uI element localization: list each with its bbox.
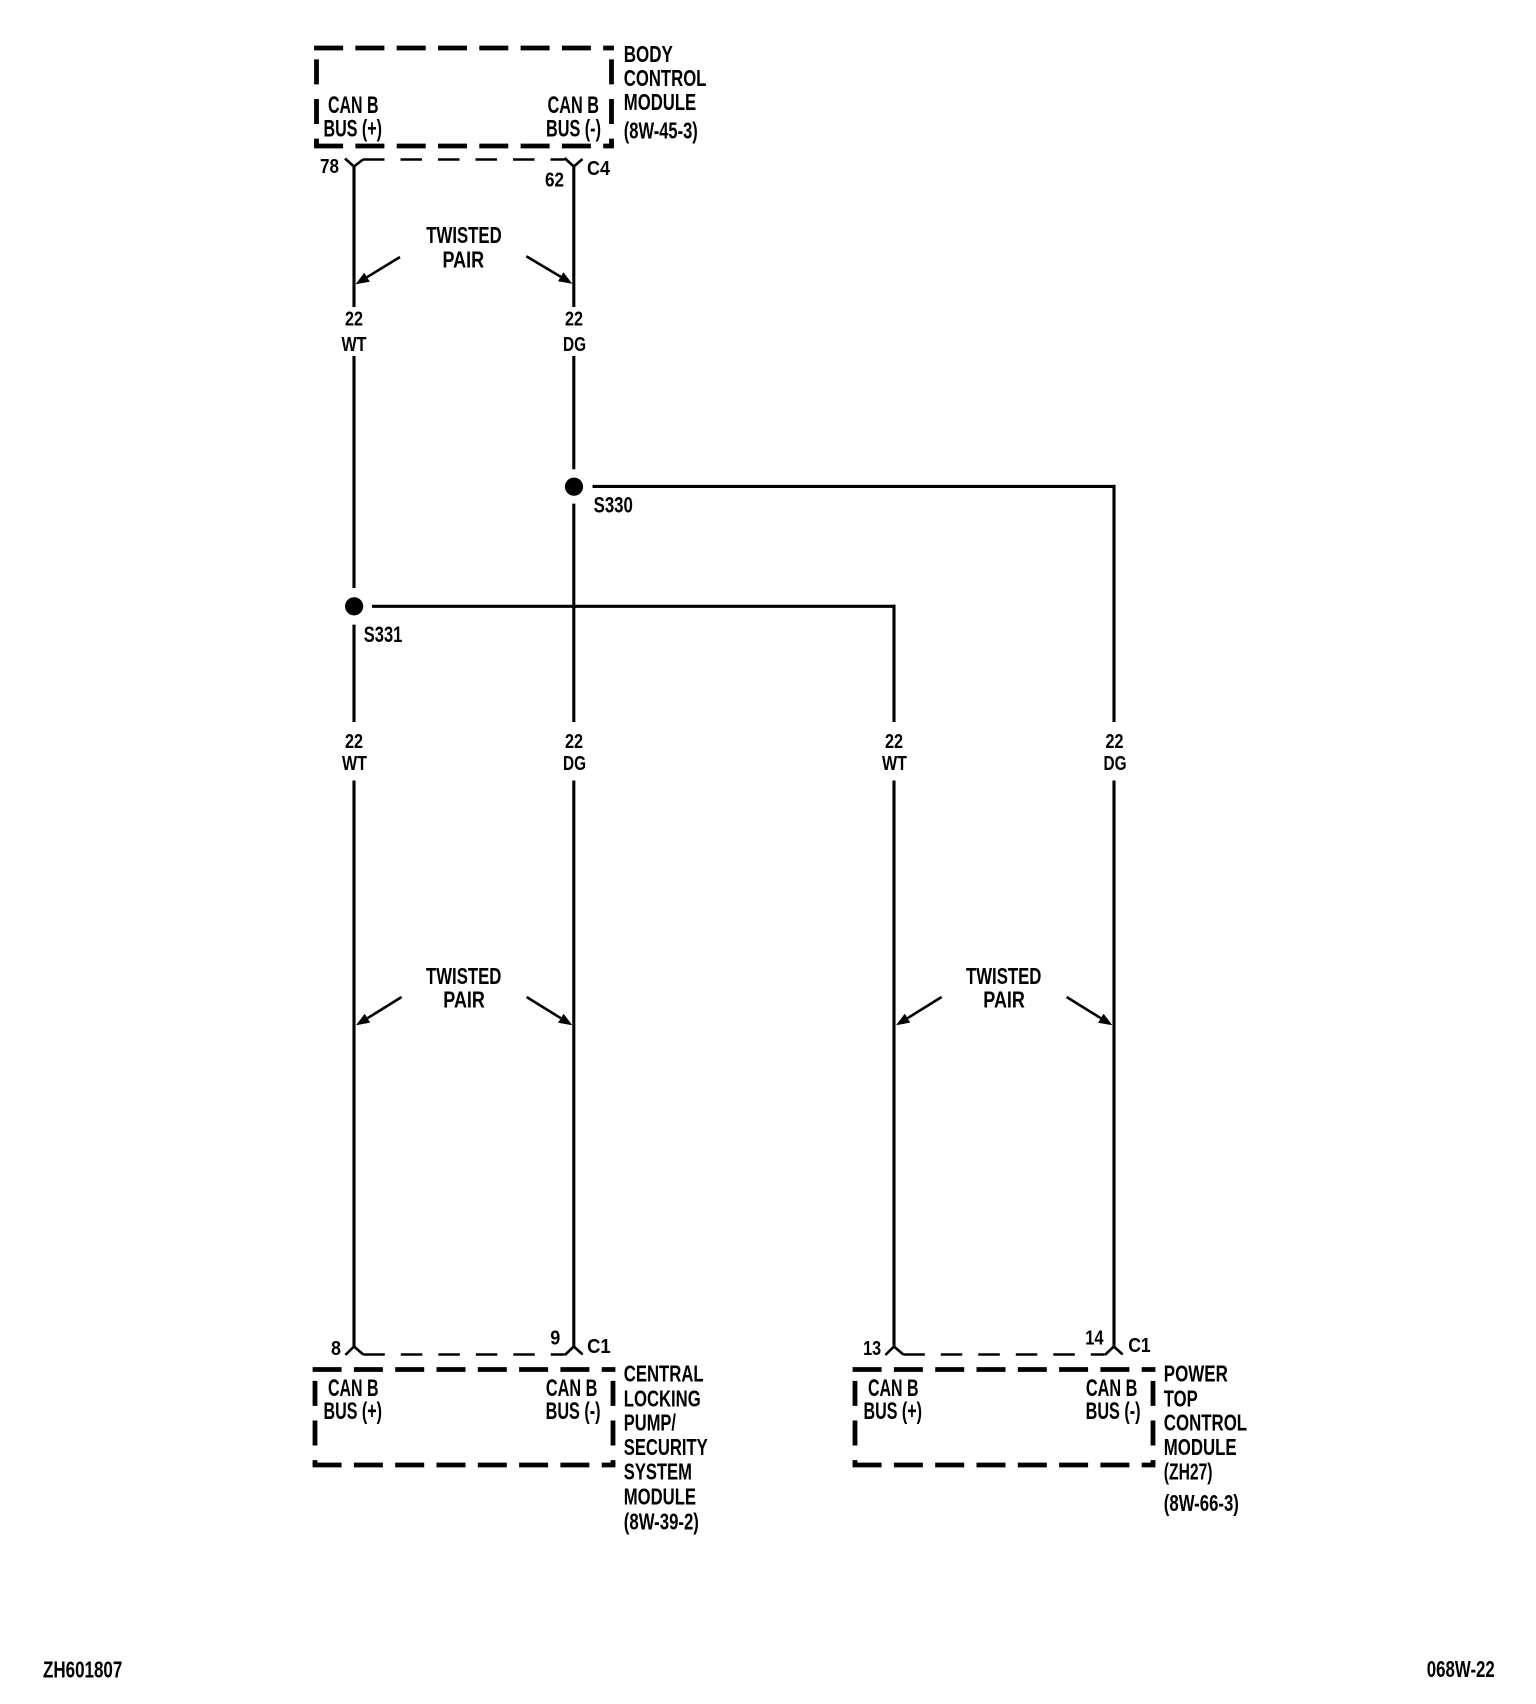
- svg-text:WT: WT: [882, 752, 907, 775]
- svg-text:C4: C4: [587, 157, 611, 180]
- connector C1 dashed link (right): [903, 1353, 1104, 1356]
- svg-text:TWISTED: TWISTED: [426, 963, 501, 989]
- module box: CENTRAL LOCKING PUMP/SECURITY SYSTEM MODULE: [313, 1370, 616, 1466]
- svg-text:SECURITY: SECURITY: [624, 1434, 708, 1460]
- svg-text:WT: WT: [342, 333, 367, 356]
- svg-text:BODY: BODY: [624, 41, 673, 67]
- svg-text:PAIR: PAIR: [443, 986, 485, 1012]
- svg-text:8: 8: [331, 1337, 341, 1360]
- svg-text:CONTROL: CONTROL: [624, 65, 707, 91]
- svg-text:BUS (+): BUS (+): [864, 1398, 923, 1425]
- svg-text:CENTRAL: CENTRAL: [624, 1361, 704, 1387]
- wire gauge/color 22 WT (lower left pair): [342, 730, 367, 775]
- module name BODY CONTROL MODULE (8W-45-3): [624, 41, 707, 144]
- svg-text:S330: S330: [594, 493, 633, 518]
- svg-text:(8W-39-2): (8W-39-2): [624, 1509, 699, 1535]
- wire DG branch lower segment to pin 14: [1112, 781, 1115, 1347]
- label TWISTED PAIR (lower left): [426, 963, 501, 1012]
- svg-text:(8W-66-3): (8W-66-3): [1164, 1490, 1239, 1516]
- label CAN B BUS (+) [BCM pin 78]: [324, 92, 383, 143]
- wire gauge/color 22 DG (upper): [563, 307, 586, 356]
- svg-text:DG: DG: [1104, 752, 1127, 775]
- twisted-pair arrow to WT wire (top): [356, 257, 401, 284]
- svg-text:BUS (+): BUS (+): [324, 116, 383, 143]
- wire gauge/color 22 WT (upper): [342, 307, 367, 356]
- label CAN B BUS (-) [BCM pin 62]: [546, 92, 601, 143]
- module box: POWER TOP CONTROL MODULE: [853, 1370, 1156, 1466]
- svg-text:DG: DG: [563, 333, 586, 356]
- connector C4 pin 78 terminal: [345, 159, 363, 167]
- svg-text:TOP: TOP: [1164, 1385, 1198, 1411]
- wire CAN B (+) WT from BCM pin 78, upper segment: [352, 167, 355, 308]
- wire WT branch vertical run to power top module: [892, 605, 895, 722]
- twisted-pair arrow to DG wire (lower left): [527, 997, 573, 1025]
- connector C1 pin 9 terminal: [565, 1347, 583, 1356]
- svg-text:C1: C1: [1128, 1334, 1151, 1357]
- module box: BODY CONTROL MODULE: [314, 48, 614, 146]
- svg-text:22: 22: [885, 730, 903, 753]
- wire DG mid segment to splice S330: [572, 356, 575, 469]
- label TWISTED PAIR (lower right): [966, 963, 1041, 1012]
- wire WT below splice S331: [352, 625, 355, 722]
- svg-text:DG: DG: [563, 752, 586, 775]
- svg-text:POWER: POWER: [1164, 1361, 1228, 1387]
- svg-text:78: 78: [320, 155, 339, 178]
- svg-text:(8W-45-3): (8W-45-3): [624, 118, 698, 144]
- label CAN B BUS (-) [pin 14]: [1086, 1375, 1141, 1425]
- svg-text:PAIR: PAIR: [443, 247, 485, 273]
- connector C4 dashed link: [363, 158, 565, 161]
- svg-text:(ZH27): (ZH27): [1164, 1459, 1213, 1485]
- connector C1 pin 14 terminal: [1105, 1347, 1123, 1356]
- splice S330 junction dot: [565, 478, 583, 496]
- svg-text:22: 22: [345, 307, 363, 330]
- svg-text:LOCKING: LOCKING: [624, 1385, 701, 1411]
- svg-text:MODULE: MODULE: [624, 89, 696, 115]
- svg-text:22: 22: [1106, 730, 1124, 753]
- svg-text:WT: WT: [342, 752, 367, 775]
- svg-text:22: 22: [565, 307, 583, 330]
- svg-text:22: 22: [345, 730, 363, 753]
- svg-text:TWISTED: TWISTED: [966, 963, 1041, 989]
- label CAN B BUS (+) [pin 8]: [324, 1375, 383, 1425]
- wire CAN B (-) DG from BCM pin 62, upper segment: [572, 167, 575, 308]
- wire WT branch from S331 horizontal run: [372, 605, 896, 608]
- wire gauge/color 22 DG (lower right pair): [1104, 730, 1127, 775]
- twisted-pair arrow to DG wire (top): [526, 256, 572, 284]
- connector C1 dashed link (left): [363, 1353, 564, 1356]
- module name CENTRAL LOCKING PUMP/SECURITY SYSTEM MODULE (8W-39-2): [624, 1361, 708, 1535]
- wire WT branch lower segment to pin 13: [892, 781, 895, 1347]
- svg-text:14: 14: [1085, 1326, 1104, 1349]
- svg-text:CONTROL: CONTROL: [1164, 1409, 1247, 1435]
- wire DG branch from S330 horizontal run: [593, 485, 1116, 488]
- wire DG lower segment to pin 9: [572, 781, 575, 1347]
- svg-text:62: 62: [545, 168, 564, 191]
- svg-text:ZH601807: ZH601807: [43, 1656, 122, 1682]
- wire WT lower segment to pin 8: [352, 781, 355, 1347]
- connector C4 pin 62 terminal: [565, 158, 583, 167]
- twisted-pair arrow to DG wire (lower right): [1067, 997, 1113, 1025]
- module name POWER TOP CONTROL MODULE (ZH27) (8W-66-3): [1164, 1361, 1247, 1516]
- svg-text:13: 13: [863, 1337, 881, 1360]
- svg-text:PUMP/: PUMP/: [624, 1409, 677, 1435]
- svg-text:TWISTED: TWISTED: [426, 222, 501, 248]
- wire DG branch vertical run to power top module: [1112, 485, 1115, 722]
- svg-text:MODULE: MODULE: [1164, 1434, 1237, 1460]
- wire WT mid segment to splice S331: [352, 356, 355, 588]
- connector C1 pin 13 terminal: [885, 1347, 903, 1356]
- twisted-pair arrow to WT wire (lower left): [356, 997, 402, 1025]
- svg-text:BUS (-): BUS (-): [546, 1398, 601, 1425]
- label TWISTED PAIR (top): [426, 222, 501, 273]
- svg-text:BUS (-): BUS (-): [1086, 1398, 1141, 1425]
- label CAN B BUS (-) [pin 9]: [546, 1375, 601, 1425]
- label CAN B BUS (+) [pin 13]: [864, 1375, 923, 1425]
- svg-text:9: 9: [550, 1326, 560, 1349]
- svg-text:068W-22: 068W-22: [1427, 1656, 1495, 1682]
- svg-text:PAIR: PAIR: [983, 986, 1025, 1012]
- wire gauge/color 22 DG (lower left pair): [563, 730, 586, 775]
- svg-text:BUS (+): BUS (+): [324, 1398, 383, 1425]
- svg-text:SYSTEM: SYSTEM: [624, 1458, 692, 1484]
- splice S331 junction dot: [345, 597, 363, 615]
- svg-text:BUS (-): BUS (-): [546, 116, 601, 143]
- svg-text:S331: S331: [364, 622, 403, 647]
- wire gauge/color 22 WT (lower right pair): [882, 730, 907, 775]
- twisted-pair arrow to WT wire (lower right): [896, 997, 942, 1025]
- connector C1 pin 8 terminal: [345, 1347, 363, 1356]
- svg-text:MODULE: MODULE: [624, 1483, 696, 1509]
- wire DG below splice S330: [572, 504, 575, 722]
- svg-text:C1: C1: [587, 1335, 611, 1358]
- svg-text:22: 22: [565, 730, 583, 753]
